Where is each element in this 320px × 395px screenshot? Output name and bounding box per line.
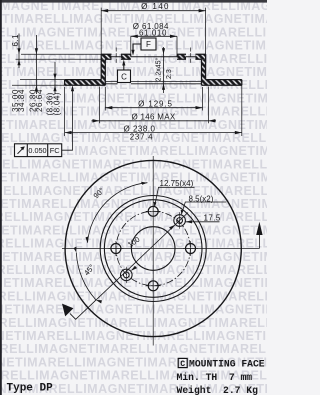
svg-text:Weight 2.7 Kg: Weight 2.7 Kg [177,385,259,395]
svg-text:MAGNETIMARELLIMAGNETIMARELLIMA: MAGNETIMARELLIMAGNETIMARELLIMAGNETIMAREL… [0,223,267,237]
svg-text:(8.04): (8.04) [53,92,62,115]
svg-text:MAGNETIMARELLIMAGNETIMARELLIMA: MAGNETIMARELLIMAGNETIMARELLIMAGNETIMAREL… [0,303,267,317]
svg-text:MAGNETIMARELLIMAGNETIMARELLIMA: MAGNETIMARELLIMAGNETIMARELLIMAGNETIMAREL… [0,184,267,198]
svg-text:MAGNETIMARELLIMAGNETIMARELLIMA: MAGNETIMARELLIMAGNETIMARELLIMAGNETIMAREL… [0,342,267,356]
svg-text:Ø 146 MAX: Ø 146 MAX [131,113,175,122]
svg-text:C: C [121,73,127,82]
svg-text:Min. TH 7 mm: Min. TH 7 mm [177,372,253,383]
svg-text:MAGNETIMARELLIMAGNETIMARELLIMA: MAGNETIMARELLIMAGNETIMARELLIMAGNETIMAREL… [0,329,267,343]
svg-text:61.010: 61.010 [139,29,167,38]
svg-text:Ø 129.5: Ø 129.5 [138,99,173,108]
svg-text:MAGNETIMARELLIMAGNETIMARELLIMA: MAGNETIMARELLIMAGNETIMARELLIMAGNETIMAREL… [0,276,267,290]
svg-text:8.5(x2): 8.5(x2) [189,194,214,203]
svg-text:12.75(x4): 12.75(x4) [160,179,194,188]
svg-text:MAGNETIMARELLIMAGNETIMARELLIMA: MAGNETIMARELLIMAGNETIMARELLIMAGNETIMAREL… [0,316,267,330]
svg-text:2.3: 2.3 [166,69,173,79]
svg-text:6.1: 6.1 [11,34,20,46]
svg-text:2.2x45°: 2.2x45° [155,57,163,81]
svg-text:17.5: 17.5 [204,213,221,222]
svg-text:237.4: 237.4 [130,133,154,142]
svg-text:26.64: 26.64 [35,89,44,112]
svg-text:MAGNETIMARELLIMAGNETIMARELLIMA: MAGNETIMARELLIMAGNETIMARELLIMAGNETIMAREL… [0,65,267,79]
svg-text:MAGNETIMARELLIMAGNETIMARELLIMA: MAGNETIMARELLIMAGNETIMARELLIMAGNETIMAREL… [0,157,267,171]
svg-text:34.84: 34.84 [17,89,26,112]
svg-text:MAGNETIMARELLIMAGNETIMARELLIMA: MAGNETIMARELLIMAGNETIMARELLIMAGNETIMAREL… [0,171,267,185]
svg-text:0.050: 0.050 [28,146,46,155]
svg-text:F: F [146,40,151,49]
svg-text:MOUNTING FACE: MOUNTING FACE [189,358,265,369]
svg-text:FC: FC [50,146,61,155]
svg-text:MAGNETIMARELLIMAGNETIMARELLIMA: MAGNETIMARELLIMAGNETIMARELLIMAGNETIMAREL… [0,263,267,277]
svg-text:Ø 140: Ø 140 [141,2,170,11]
svg-text:Type DP: Type DP [7,382,54,394]
